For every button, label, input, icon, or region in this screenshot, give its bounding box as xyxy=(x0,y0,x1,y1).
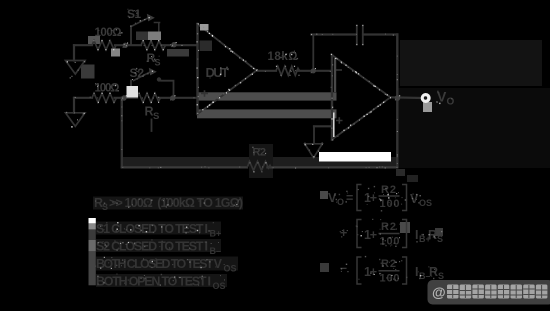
svg-text:DUT: DUT xyxy=(206,65,230,80)
svg-text:100: 100 xyxy=(380,198,400,210)
svg-text:BOTH OPEN TO TEST I: BOTH OPEN TO TEST I xyxy=(96,274,211,288)
svg-text:S: S xyxy=(153,111,159,122)
svg-text:OS: OS xyxy=(419,198,432,208)
svg-text:R: R xyxy=(429,265,438,279)
svg-text:OS: OS xyxy=(224,264,237,274)
svg-text:S2 CLOSED TO TEST I: S2 CLOSED TO TEST I xyxy=(96,239,208,253)
svg-text:S: S xyxy=(437,234,443,244)
svg-text:+: + xyxy=(340,226,347,240)
svg-text:1 +: 1 + xyxy=(364,191,377,205)
svg-text:O: O xyxy=(447,97,455,108)
svg-text:–: – xyxy=(340,261,347,275)
svg-text:S: S xyxy=(438,271,444,281)
svg-text:S1 CLOSED TO TEST I: S1 CLOSED TO TEST I xyxy=(96,222,208,236)
svg-text:V: V xyxy=(328,191,337,205)
svg-text:1 +: 1 + xyxy=(364,228,377,242)
svg-text:R2: R2 xyxy=(253,147,267,159)
svg-text:R2: R2 xyxy=(381,221,396,233)
svg-text:@: @ xyxy=(432,284,446,300)
svg-text:100Ω: 100Ω xyxy=(95,83,120,95)
svg-text:O: O xyxy=(337,197,344,207)
svg-text:S1: S1 xyxy=(127,7,141,21)
svg-text:B+: B+ xyxy=(210,229,222,239)
svg-text:=: = xyxy=(346,191,353,205)
svg-text:OS: OS xyxy=(213,281,226,291)
svg-text:V: V xyxy=(410,192,419,206)
svg-text:1 +: 1 + xyxy=(364,265,377,279)
svg-text:I: I xyxy=(415,228,418,242)
svg-text:S: S xyxy=(155,58,161,68)
svg-text:BOTH CLOSED TO TEST V: BOTH CLOSED TO TEST V xyxy=(96,257,223,271)
svg-text:100Ω: 100Ω xyxy=(95,27,122,39)
svg-text:B–: B– xyxy=(210,246,222,256)
